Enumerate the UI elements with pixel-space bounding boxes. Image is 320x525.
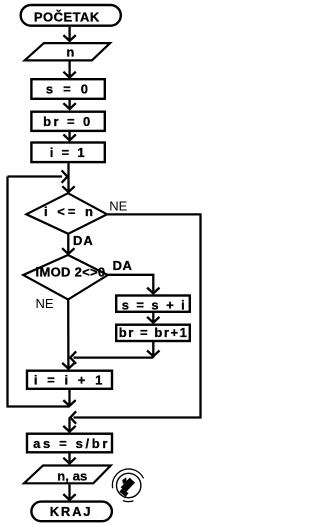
wire loop back down-left-up <box>8 177 76 407</box>
wire arrow A7 <box>147 313 159 323</box>
svg-text:KRAJ: KRAJ <box>50 504 93 519</box>
io parallelogram n, as <box>24 466 111 484</box>
svg-text:i = 1: i = 1 <box>50 145 87 160</box>
wire NE2 down to i=i+1 <box>62 300 74 369</box>
svg-text:s = 0: s = 0 <box>46 81 91 96</box>
wire arrow A11 <box>63 484 75 500</box>
svg-text:NE: NE <box>36 296 54 311</box>
svg-text:iMOD 2<>0: iMOD 2<>0 <box>36 265 106 280</box>
decision diamond iMOD 2<>0 <box>23 255 108 300</box>
svg-text:DA: DA <box>113 258 133 273</box>
wire into decision 1 <box>62 163 74 192</box>
svg-text:i = i + 1: i = i + 1 <box>34 372 106 387</box>
decision diamond i <= n <box>26 193 107 234</box>
process rect br = br+1 <box>116 325 190 341</box>
svg-text:i <= n: i <= n <box>44 204 96 219</box>
svg-text:NE: NE <box>109 198 127 213</box>
icon circle stamp <box>112 469 143 502</box>
wire junction into as rect <box>63 418 75 432</box>
wire arrow A1 <box>63 27 75 41</box>
wire return from br=br+1 down and left <box>70 342 159 364</box>
svg-text:br = 0: br = 0 <box>43 114 92 129</box>
wire arrow A3 <box>63 99 75 109</box>
process rect s = 0 <box>31 79 104 99</box>
terminator POCETAK <box>21 5 121 26</box>
wire arrow A10 <box>63 454 75 464</box>
svg-text:n, as: n, as <box>57 468 87 483</box>
wire arrow A2 <box>63 62 75 78</box>
process rect br = 0 <box>31 112 104 131</box>
wire arrow A4 <box>63 131 75 140</box>
wire NE branch right, down and back <box>70 214 200 423</box>
io parallelogram n <box>25 43 111 60</box>
svg-text:DA: DA <box>73 233 94 248</box>
wire DA branch <box>108 275 160 294</box>
process rect s = s + i <box>116 296 190 312</box>
svg-text:as = s/br: as = s/br <box>33 436 110 451</box>
loop feedback arrow into main line <box>8 170 68 182</box>
terminator KRAJ <box>31 502 112 522</box>
svg-text:n: n <box>66 44 74 59</box>
svg-text:br = br+1: br = br+1 <box>119 325 189 340</box>
wire arrow A6 <box>62 234 74 254</box>
process rect as = s/br <box>27 434 112 453</box>
process rect i = 1 <box>31 143 104 163</box>
svg-text:s = s + i: s = s + i <box>122 297 187 312</box>
process rect i = i + 1 <box>27 371 112 389</box>
svg-text:POČETAK: POČETAK <box>34 10 100 25</box>
